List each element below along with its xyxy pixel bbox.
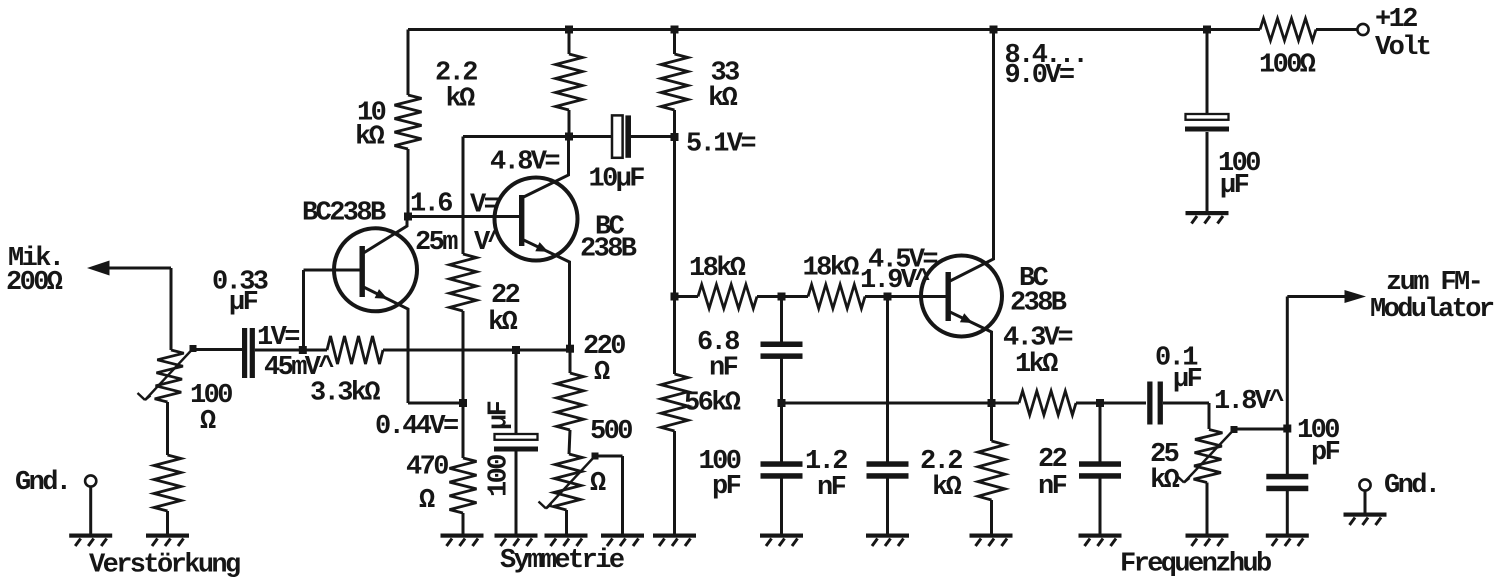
resistor 100 Ohm supply <box>1260 19 1316 41</box>
svg-text:1kΩ: 1kΩ <box>1015 350 1058 380</box>
label 220 <box>583 332 625 362</box>
label 100 (pot) <box>190 381 232 411</box>
wire 56k to ground <box>673 431 676 534</box>
ground under Gnd right <box>1344 513 1387 526</box>
wire T1 collector <box>364 217 408 254</box>
svg-text:zum FM-: zum FM- <box>1386 268 1481 298</box>
capacitor 100pF <box>761 461 803 478</box>
wire 220 to pot 500 <box>569 430 570 454</box>
svg-text:Modulator: Modulator <box>1370 295 1494 325</box>
label Ohm (pot) <box>200 407 216 437</box>
wire to 100uF sym <box>515 350 518 434</box>
label 33 <box>711 59 740 89</box>
wire wiper to down corner <box>595 455 623 458</box>
label zum FM- <box>1386 268 1481 298</box>
svg-text:µF: µF <box>1173 365 1202 395</box>
label nF (6.8) <box>709 354 738 384</box>
wire wiper corner down <box>621 456 624 534</box>
label pF (100) <box>712 472 741 502</box>
wire 100pF out to ground <box>1286 490 1289 534</box>
wire 2.2k to collector node <box>568 110 571 137</box>
capacitor 0.33uF <box>242 328 255 378</box>
svg-text:pF: pF <box>712 472 741 502</box>
wire 18k2 to T3 base <box>865 295 946 298</box>
resistor 18 kOhm first <box>698 285 757 309</box>
potentiometer 25 kOhm (Frequenzhub) <box>1194 430 1223 483</box>
label kOhm (22k) <box>488 308 518 338</box>
wire 10k to base node <box>407 149 410 217</box>
label 2.2 <box>435 59 477 89</box>
label Ohm (500) <box>590 469 606 499</box>
label 9.0V= <box>1005 61 1074 91</box>
svg-text:1.6: 1.6 <box>410 190 452 220</box>
svg-text:22: 22 <box>1038 445 1067 475</box>
svg-text:18kΩ: 18kΩ <box>803 254 860 284</box>
label Frequenzhub <box>1120 550 1271 580</box>
wire rail to 2.2k <box>568 30 571 55</box>
label 8.4... <box>1005 41 1087 71</box>
wire output up <box>1286 297 1289 429</box>
wire 470 to ground <box>462 513 465 534</box>
wire 0.1uF to pot corner <box>1163 402 1209 405</box>
label 10uF <box>589 165 645 195</box>
label 100 (out pF) <box>1297 416 1339 446</box>
ground under 56k <box>653 534 696 547</box>
resistor 10 kOhm <box>395 95 422 149</box>
wire T1 base lead <box>304 269 361 272</box>
svg-text:Gnd.: Gnd. <box>1384 471 1438 501</box>
label V^ (25m) <box>474 228 504 258</box>
label kOhm (25k) <box>1150 466 1180 496</box>
arrow zum FM-Modulator <box>1345 290 1367 303</box>
svg-text:3.3kΩ: 3.3kΩ <box>310 379 380 409</box>
label pF (out) <box>1311 438 1340 468</box>
capacitor 1.2nF <box>867 461 909 478</box>
terminal Gnd right <box>1359 479 1370 490</box>
label 1V= <box>257 323 299 353</box>
svg-text:100Ω: 100Ω <box>1259 51 1316 81</box>
node pot wiper <box>190 345 197 352</box>
wire 10uF to 5.1 node <box>631 135 675 138</box>
node 500 pot wiper <box>592 453 599 460</box>
label Gnd. left <box>15 468 69 498</box>
svg-text:4.8V=: 4.8V= <box>490 148 559 178</box>
wire rail corner down to 10k <box>407 30 410 96</box>
wire 18k junction to 6.8nF <box>780 297 783 344</box>
transistor T2 BC238B <box>495 178 578 261</box>
wire down to pot <box>170 268 173 350</box>
wire T3 collector to rail <box>950 30 994 282</box>
node rail junction at 2.2k <box>565 26 573 34</box>
wire 100pF to ground <box>780 478 783 534</box>
ground under 2.2k emitter <box>970 534 1013 547</box>
wire T1 emitter to 0.44 node <box>408 402 463 405</box>
svg-text:238B: 238B <box>580 235 637 265</box>
svg-text:Volt: Volt <box>1375 33 1430 63</box>
label 238B (T2) <box>580 235 637 265</box>
wire pot 25k to ground <box>1206 483 1209 534</box>
label uF (0.33) <box>229 288 258 318</box>
label 4.5V= <box>868 246 937 276</box>
node 18k junction <box>778 293 786 301</box>
wire 18k1 to 18k2 <box>757 295 808 298</box>
svg-text:1.9V^: 1.9V^ <box>860 266 930 296</box>
ground under 470 <box>441 534 484 547</box>
label Mik. <box>8 244 62 274</box>
label 0.1 <box>1155 344 1198 374</box>
ground under 22nF <box>1079 534 1122 547</box>
wire 22nF to ground <box>1099 478 1102 534</box>
svg-text:kΩ: kΩ <box>708 84 738 114</box>
label 238B (T3) <box>1010 289 1067 319</box>
label Volt <box>1375 33 1430 63</box>
svg-text:V^: V^ <box>474 228 504 258</box>
svg-text:25m: 25m <box>415 228 458 258</box>
resistor 100 Ohm lower <box>154 455 181 511</box>
wire 2.2k emitter to ground <box>990 500 993 534</box>
svg-text:kΩ: kΩ <box>1150 466 1180 496</box>
wire bus right segment <box>1076 402 1146 405</box>
wire T1 base down to input node <box>302 270 305 350</box>
wire T2 collector <box>524 137 569 198</box>
wire 22k down to 0.44 node <box>462 311 465 403</box>
label 5.1V= <box>686 130 755 160</box>
svg-text:nF: nF <box>709 354 738 384</box>
wire wiper to cap 0.33 <box>193 348 242 351</box>
node T1 collector / T2 base <box>404 213 412 221</box>
svg-text:22: 22 <box>491 281 520 311</box>
node 0.44V emitter <box>459 399 467 407</box>
capacitor 6.8nF <box>761 342 803 359</box>
label 6.8 <box>697 328 739 358</box>
label 1.2 <box>805 447 847 477</box>
svg-text:pF: pF <box>1311 438 1340 468</box>
label 1kOhm <box>1015 350 1058 380</box>
wire T2 base line <box>408 215 519 218</box>
transistor T3 BC238B <box>921 256 1002 337</box>
wire rail to 100uF <box>1206 30 1209 115</box>
label BC238B (T1) <box>302 199 386 229</box>
label kOhm (10k) <box>355 123 385 153</box>
terminal +12 Volt <box>1357 24 1368 35</box>
svg-text:5.1V=: 5.1V= <box>686 130 755 160</box>
label 3.3kOhm <box>310 379 380 409</box>
svg-text:kΩ: kΩ <box>932 473 962 503</box>
wire 3.3k to 220 Ohm <box>383 349 570 352</box>
svg-text:Verstörkung: Verstörkung <box>89 551 240 581</box>
resistor 33 kOhm <box>661 54 688 110</box>
label 100 rotated <box>485 455 515 497</box>
resistor 470 Ohm <box>450 458 477 513</box>
node 5.1V <box>671 133 679 141</box>
arrow Mik input <box>87 261 110 276</box>
capacitor 22nF <box>1079 461 1121 478</box>
svg-text:µF: µF <box>485 401 515 430</box>
wire rail to +12 terminal <box>1316 28 1358 31</box>
resistor 3.3 kOhm <box>327 336 383 364</box>
wire 33k to 5.1 node <box>673 110 676 297</box>
label 200 Ohm <box>6 268 63 298</box>
label 56kOhm <box>684 389 741 419</box>
capacitor 0.1uF <box>1147 382 1163 425</box>
wire T3 base to 1.2nF <box>886 297 889 463</box>
label 10 <box>357 99 386 129</box>
wire 100uF to ground <box>1206 132 1209 211</box>
wire 6.8nF to bus <box>780 358 783 463</box>
resistor 18 kOhm second <box>808 285 865 309</box>
wire pot to 100R <box>166 402 169 455</box>
label Gnd. right <box>1384 471 1438 501</box>
svg-text:470: 470 <box>406 453 448 483</box>
wire 1.2nF to ground <box>886 478 889 534</box>
wire 100R to ground <box>166 511 169 534</box>
node T2 collector <box>565 133 573 141</box>
wire wiper to output node <box>1234 428 1287 431</box>
wire Gnd terminal to ground <box>89 487 92 534</box>
label Symmetrie <box>500 546 624 576</box>
svg-text:µF: µF <box>229 288 258 318</box>
wire output right <box>1287 295 1345 298</box>
node rail junction at 100uF <box>1203 26 1211 34</box>
resistor 220 Ohm <box>557 373 584 430</box>
label 100 (uF supply) <box>1218 149 1260 179</box>
emitter arrow T3 <box>960 313 973 323</box>
wire T3 emitter <box>950 312 992 403</box>
svg-text:kΩ: kΩ <box>488 308 518 338</box>
svg-text:10µF: 10µF <box>589 165 645 195</box>
wire node to 220 <box>569 350 572 373</box>
node 33k/56k/18k <box>671 293 679 301</box>
emitter arrow T1 <box>375 289 388 299</box>
wire 100uF sym to ground <box>515 452 518 534</box>
pot wiper arrow 100 Ohm <box>138 349 194 401</box>
label 470 <box>406 453 448 483</box>
node T3 base <box>884 293 892 301</box>
label Ohm (220) <box>594 358 610 388</box>
potentiometer 100 Ohm (Verstoerkung) <box>155 350 184 402</box>
svg-text:µF: µF <box>1220 171 1249 201</box>
svg-text:Symmetrie: Symmetrie <box>500 546 624 576</box>
wire output node to 100pF out <box>1286 429 1289 475</box>
capacitor 10uF <box>612 115 631 157</box>
label +12 <box>1375 5 1417 35</box>
label 100 Ohm supply <box>1259 51 1316 81</box>
ground under pot 500 <box>545 534 588 547</box>
label 45mV^ <box>264 353 334 383</box>
svg-text:Ω: Ω <box>594 358 610 388</box>
svg-text:500: 500 <box>590 417 632 447</box>
label Ohm (470) <box>419 486 435 516</box>
node bus left <box>778 399 786 407</box>
wire collector node to 22k <box>462 137 465 255</box>
ground under 100uF <box>1186 211 1229 224</box>
svg-text:9.0V=: 9.0V= <box>1005 61 1074 91</box>
label kOhm (2.2k) <box>446 85 476 115</box>
svg-text:Gnd.: Gnd. <box>15 468 69 498</box>
label 500 <box>590 417 632 447</box>
wire supply rail +12V <box>408 28 1260 31</box>
emitter arrow T2 <box>535 242 548 252</box>
label uF (supply) <box>1220 171 1249 201</box>
wire 22nF down <box>1099 403 1102 462</box>
wire pot 500 to ground <box>565 510 568 534</box>
ground under 100R <box>146 534 189 547</box>
label 18kOhm first <box>689 254 746 284</box>
terminal Gnd left <box>85 475 96 486</box>
svg-text:100: 100 <box>485 455 515 497</box>
resistor 2.2 kOhm emitter <box>978 441 1005 500</box>
label nF (22) <box>1038 472 1067 502</box>
svg-text:nF: nF <box>1038 472 1067 502</box>
label 25m <box>415 228 458 258</box>
wire corner down to pot 25k <box>1208 403 1211 429</box>
label kOhm (emitter) <box>932 473 962 503</box>
node T1 base junction <box>299 346 307 354</box>
label BC (T3) <box>1019 264 1049 294</box>
wire node to 470 <box>462 403 465 458</box>
wire bus left segment <box>783 402 1019 405</box>
label 18kOhm second <box>803 254 860 284</box>
ground under 100pF out <box>1266 534 1309 547</box>
resistor 22 kOhm <box>450 254 477 311</box>
label uF (0.1) <box>1173 365 1202 395</box>
svg-text:+12: +12 <box>1375 5 1417 35</box>
wire node to 56k <box>673 297 676 375</box>
wire collector node to 10uF <box>463 135 612 138</box>
svg-text:0.44V=: 0.44V= <box>375 412 458 442</box>
svg-text:Ω: Ω <box>200 407 216 437</box>
node rail junction at T3 collector <box>990 26 998 34</box>
wire Mik arrow to corner <box>109 267 171 270</box>
label 1.8V^ <box>1214 387 1284 417</box>
resistor 56 kOhm <box>661 374 688 431</box>
svg-text:kΩ: kΩ <box>446 85 476 115</box>
ground under 1.2nF <box>866 534 909 547</box>
wire cap to 3.3k <box>255 349 327 352</box>
ground under wiper 500 <box>601 534 644 547</box>
node 100uF top <box>512 346 520 354</box>
capacitor 100uF supply <box>1185 114 1229 132</box>
label 0.44V= <box>375 412 458 442</box>
svg-text:1.8V^: 1.8V^ <box>1214 387 1284 417</box>
label V= (1.6) <box>470 191 499 221</box>
ground under pot 25k <box>1186 534 1229 547</box>
capacitor 100uF symmetrie <box>494 434 538 452</box>
capacitor 100pF output <box>1266 474 1308 491</box>
node 22nF junction <box>1096 399 1104 407</box>
ground under 100uF sym <box>495 534 538 547</box>
ground under 100pF <box>760 534 803 547</box>
label 22 (22k) <box>491 281 520 311</box>
node T3 emitter bus <box>988 399 996 407</box>
ground under Gnd terminal <box>69 534 112 547</box>
svg-text:Ω: Ω <box>419 486 435 516</box>
svg-text:4.3V=: 4.3V= <box>1003 324 1072 354</box>
transistor T1 BC238B <box>334 228 417 311</box>
node 25k wiper <box>1231 426 1238 433</box>
label 4.8V= <box>490 148 559 178</box>
label Verstoerkung <box>89 551 240 581</box>
svg-text:nF: nF <box>817 473 846 503</box>
label uF rotated <box>485 401 515 430</box>
svg-text:238B: 238B <box>1010 289 1067 319</box>
label nF (1.2) <box>817 473 846 503</box>
label 2.2 (emitter) <box>920 447 962 477</box>
wire T1 emitter <box>364 287 409 403</box>
wire T2 emitter <box>524 240 570 349</box>
node rail junction at 33k <box>671 26 679 34</box>
svg-text:Frequenzhub: Frequenzhub <box>1120 550 1271 580</box>
wire node to 18k first <box>675 295 699 298</box>
svg-text:200Ω: 200Ω <box>6 268 63 298</box>
svg-text:BC238B: BC238B <box>302 199 386 229</box>
label 1.9V^ <box>860 266 930 296</box>
node emitter T2 / 220 <box>566 345 574 353</box>
resistor 2.2 kOhm <box>556 54 583 110</box>
label 0.33 <box>212 268 268 298</box>
wire Gnd right to ground <box>1364 491 1367 513</box>
wire rail to 33k <box>673 30 676 55</box>
label Modulator <box>1370 295 1494 325</box>
svg-text:Ω: Ω <box>590 469 606 499</box>
svg-text:56kΩ: 56kΩ <box>684 389 741 419</box>
label 1.6 <box>410 190 452 220</box>
node output <box>1283 425 1291 433</box>
svg-text:kΩ: kΩ <box>355 123 385 153</box>
label 4.3V= <box>1003 324 1072 354</box>
pot wiper arrow 25k <box>1177 430 1235 483</box>
label 100 (pF) <box>699 447 741 477</box>
label BC (T2) <box>595 213 625 243</box>
label 25 <box>1150 440 1179 470</box>
potentiometer 500 Ohm (Symmetrie) <box>553 454 582 510</box>
label kOhm (33k) <box>708 84 738 114</box>
resistor 1 kOhm <box>1019 391 1076 415</box>
svg-text:18kΩ: 18kΩ <box>689 254 746 284</box>
label 22 (nF) <box>1038 445 1067 475</box>
wire emitter node to 2.2k <box>990 403 993 441</box>
pot wiper arrow 500 <box>539 456 596 509</box>
